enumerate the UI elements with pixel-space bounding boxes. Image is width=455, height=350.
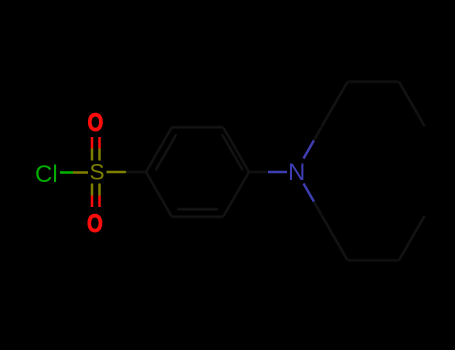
- bond C2''-C3'' lower chain: [348, 259, 400, 261]
- double bond S=O bottom, line 1 oxygen half: [91, 196, 94, 208]
- benzene ring edge B-C: [172, 126, 224, 128]
- bond N-C1' upper chain (nitrogen half): [304, 140, 315, 158]
- double bond S=O bottom, line 1 sulfur half: [91, 184, 94, 196]
- bond N-C1'' lower chain (nitrogen half): [304, 184, 315, 202]
- bond C3'-C4' upper chain: [399, 82, 425, 127]
- benzene inner double bond on A-B: [156, 134, 177, 170]
- bond D-N (carbon half): [249, 171, 268, 173]
- bond C2'-C3' upper chain: [348, 81, 400, 83]
- benzene ring edge C-D: [223, 127, 249, 172]
- bond N-C1' upper chain (carbon half): [314, 126, 322, 140]
- svg-text:S: S: [90, 160, 105, 185]
- benzene inner double bond on C-D: [222, 134, 243, 170]
- double bond S=O top, line 2 sulfur half: [98, 149, 101, 161]
- double bond S=O bottom, line 2 sulfur half: [98, 184, 101, 196]
- bond Cl-S (sulfur half): [73, 171, 88, 174]
- bond S-C1 ring (carbon half): [126, 171, 146, 173]
- benzene ring edge F-A: [146, 172, 172, 217]
- svg-text:O: O: [88, 109, 104, 137]
- benzene ring edge D-E: [223, 172, 249, 217]
- bond S-C1 ring (sulfur half): [107, 171, 127, 174]
- double bond S=O bottom, line 2 oxygen half: [98, 196, 101, 208]
- svg-text:Cl: Cl: [35, 161, 58, 188]
- bond C1'-C2' upper chain: [322, 82, 348, 127]
- benzene ring edge A-B: [146, 127, 172, 172]
- double bond S=O top, line 2 oxygen half: [98, 137, 101, 149]
- bond N-C1'' lower chain (carbon half): [314, 202, 322, 216]
- bond C3''-C4'' lower chain: [399, 216, 425, 261]
- benzene inner double bond on E-F: [177, 208, 218, 210]
- svg-text:N: N: [288, 159, 305, 186]
- bond Cl-S (green half): [60, 171, 73, 174]
- benzene ring edge E-F: [172, 216, 224, 218]
- double bond S=O top, line 1 sulfur half: [91, 149, 94, 161]
- double bond S=O top, line 1 oxygen half: [91, 137, 94, 149]
- svg-text:O: O: [87, 210, 103, 238]
- bond D-N (nitrogen half): [268, 171, 287, 174]
- bond C1''-C2'' lower chain: [322, 216, 348, 261]
